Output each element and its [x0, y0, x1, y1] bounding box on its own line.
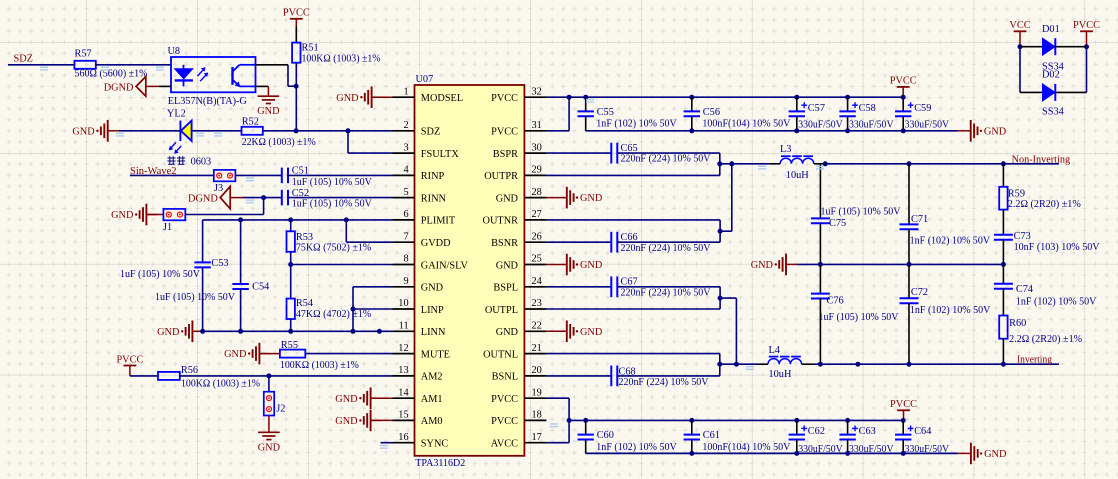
wire GND to AM0	[371, 419, 393, 421]
junction C64 bottom	[901, 451, 906, 456]
wire to J2	[268, 376, 270, 392]
power port GND (J1)	[140, 204, 147, 226]
svg-text:OUTNL: OUTNL	[483, 349, 518, 360]
svg-text:8: 8	[403, 254, 408, 265]
power port GND (YL2 row)	[101, 120, 108, 142]
svg-text:PVCC: PVCC	[890, 76, 917, 87]
wire GND to J1	[146, 214, 163, 216]
connector J3	[214, 170, 236, 181]
junction DGND/J1	[261, 195, 266, 200]
wire PVCC down	[1086, 47, 1088, 93]
junction C56 bottom	[689, 128, 694, 133]
svg-text:24: 24	[532, 276, 542, 287]
pin R59 top	[1002, 164, 1004, 187]
wire DGND stub	[146, 85, 159, 87]
wire pin31-32 tie	[568, 97, 570, 131]
svg-text:GND: GND	[157, 327, 180, 338]
wire C65 right	[617, 152, 720, 154]
pin C59 bottom	[902, 116, 904, 131]
junction C62 bottom	[794, 451, 799, 456]
svg-text:C74: C74	[1016, 284, 1033, 295]
svg-text:28: 28	[532, 187, 542, 198]
pin U8 cathode	[159, 85, 171, 87]
wire C51 to pin4	[288, 174, 393, 176]
wire SDZ to FSULTX	[347, 131, 349, 153]
svg-text:C72: C72	[911, 287, 928, 298]
svg-text:1uF (105) 10% 50V: 1uF (105) 10% 50V	[292, 177, 373, 188]
resistor R59	[999, 187, 1007, 210]
svg-text:GND: GND	[224, 349, 247, 360]
svg-text:BSNR: BSNR	[491, 238, 518, 249]
diode D01	[1043, 38, 1056, 55]
pin 28 GND	[524, 197, 546, 199]
svg-text:R53: R53	[296, 232, 313, 243]
wire Sin-Wave2 to J3	[130, 174, 214, 176]
junction R59 top	[1001, 161, 1006, 166]
svg-text:47KΩ (4702) ±1%: 47KΩ (4702) ±1%	[296, 309, 372, 320]
svg-text:C63: C63	[859, 426, 876, 437]
svg-text:BSNL: BSNL	[492, 372, 518, 383]
svg-text:C54: C54	[252, 282, 269, 293]
pin 4 RINP	[393, 174, 415, 176]
wire pin20 to C68	[546, 375, 611, 377]
diode D02	[1043, 84, 1056, 101]
pin R51 top	[295, 27, 297, 43]
pin C72 top	[908, 264, 910, 298]
power port GND (AM0)	[364, 410, 371, 432]
wire R53 to row8	[290, 252, 292, 265]
ground U8 emitter	[258, 96, 280, 103]
pin 11 LINN	[393, 330, 415, 332]
svg-text:C76: C76	[827, 296, 844, 307]
junction row2/FSULTX tie	[346, 128, 351, 133]
svg-text:23: 23	[532, 298, 542, 309]
wire pins19-17 tie	[568, 398, 570, 443]
capacitor C66	[611, 232, 617, 253]
svg-text:2.2Ω (2R20) ±1%: 2.2Ω (2R20) ±1%	[1009, 334, 1082, 345]
svg-text:R54: R54	[296, 298, 313, 309]
power port GND (top rail)	[971, 120, 978, 142]
pin C75 bottom	[819, 223, 821, 264]
svg-text:SDZ: SDZ	[421, 127, 440, 138]
svg-text:MODSEL: MODSEL	[421, 93, 463, 104]
svg-text:5: 5	[403, 187, 408, 198]
junction C71/GND	[907, 262, 912, 267]
svg-text:20: 20	[532, 365, 542, 376]
junction R60/L4 row	[1001, 362, 1006, 367]
pin C58 top	[847, 97, 849, 111]
wire GND to R55	[259, 353, 280, 355]
junction C58 bottom	[845, 128, 850, 133]
junction C76/L4 row	[818, 362, 823, 367]
wire U8 collector	[256, 64, 289, 66]
power port DGND (U8)	[136, 77, 146, 97]
wire GND to YL2	[119, 130, 180, 132]
svg-text:GND: GND	[258, 442, 281, 453]
svg-text:1uF (105) 10% 50V: 1uF (105) 10% 50V	[821, 207, 902, 218]
pin C72 bottom	[908, 303, 910, 364]
wire GND tie vertical	[352, 287, 354, 332]
svg-text:100KΩ (1003) ±1%: 100KΩ (1003) ±1%	[280, 360, 359, 371]
resistor R51	[292, 43, 300, 63]
svg-text:22: 22	[532, 321, 542, 332]
svg-text:L3: L3	[780, 144, 791, 155]
svg-text:SDZ: SDZ	[14, 54, 33, 65]
pin 17 AVCC	[524, 442, 546, 444]
svg-text:Non-Inverting: Non-Inverting	[1012, 155, 1071, 166]
svg-text:6: 6	[403, 209, 408, 220]
wire pin to GND (OUTPR GND)	[546, 197, 566, 199]
junction C60 top	[583, 418, 588, 423]
pin C62 top	[796, 420, 798, 434]
svg-text:C60: C60	[597, 430, 614, 441]
power port GND (MODSEL)	[365, 86, 372, 108]
svg-text:12: 12	[398, 343, 408, 354]
svg-text:SYNC: SYNC	[421, 439, 449, 450]
capacitor C62	[789, 426, 808, 440]
svg-text:R51: R51	[302, 42, 319, 53]
wire pin31	[546, 130, 569, 132]
svg-text:220nF (224) 10% 50V: 220nF (224) 10% 50V	[619, 377, 710, 388]
junction LINP	[351, 307, 356, 312]
junction OUTPL tie-in	[734, 362, 739, 367]
wire C66 right	[617, 241, 720, 243]
wire pin to GND (OUTPL GND)	[546, 330, 566, 332]
capacitor C56	[684, 111, 700, 116]
wire GND rail top	[586, 130, 958, 132]
svg-text:C56: C56	[703, 107, 720, 118]
svg-text:PVCC: PVCC	[491, 394, 518, 405]
svg-text:GND: GND	[496, 193, 519, 204]
svg-text:330uF/50V: 330uF/50V	[849, 120, 894, 131]
wire C54 to GND row	[240, 289, 242, 331]
svg-text:100nF(104) 10% 50V: 100nF(104) 10% 50V	[702, 442, 791, 453]
svg-text:15: 15	[398, 410, 408, 421]
svg-text:OUTPR: OUTPR	[484, 171, 518, 182]
wire to pin3	[348, 152, 393, 154]
pin C56 top	[691, 97, 693, 111]
svg-text:PVCC: PVCC	[283, 8, 310, 19]
power port GND (bottom rail)	[971, 443, 978, 465]
svg-text:1uF (105) 10% 50V: 1uF (105) 10% 50V	[292, 199, 373, 210]
pin C61 top	[691, 420, 693, 434]
svg-text:C59: C59	[914, 103, 931, 114]
svg-text:1nF (102) 10% 50V: 1nF (102) 10% 50V	[910, 236, 991, 247]
pin 12 MUTE	[393, 353, 415, 355]
svg-text:17: 17	[532, 432, 542, 443]
svg-text:Inverting: Inverting	[1017, 355, 1052, 366]
capacitor C75	[811, 218, 830, 223]
svg-text:25: 25	[532, 254, 542, 265]
svg-text:10nF (103) 10% 50V: 10nF (103) 10% 50V	[1014, 242, 1101, 253]
svg-text:J2: J2	[276, 403, 285, 414]
pin L4 right	[802, 363, 814, 365]
svg-text:MUTE: MUTE	[421, 349, 450, 360]
svg-text:GND: GND	[580, 260, 603, 271]
pin 27 OUTNR	[524, 219, 546, 221]
wire GND row11	[204, 330, 393, 332]
svg-text:SS34: SS34	[1042, 107, 1064, 118]
junction L4 tap	[717, 362, 722, 367]
junction C63 top	[845, 418, 850, 423]
wire to D02	[1020, 91, 1043, 93]
pin 9 GND	[393, 286, 415, 288]
pin 32 PVCC	[524, 96, 546, 98]
svg-text:AM2: AM2	[421, 372, 443, 383]
capacitor C60	[578, 435, 594, 440]
svg-text:C75: C75	[829, 218, 846, 229]
svg-text:0603: 0603	[191, 157, 212, 168]
svg-text:OUTPL: OUTPL	[485, 305, 518, 316]
wire C68 right	[617, 375, 720, 377]
wire D01 to PVCC	[1055, 46, 1086, 48]
junction C73/GND	[1001, 262, 1006, 267]
pin 7 GVDD	[393, 241, 415, 243]
wire pin24 to C67	[546, 286, 611, 288]
power port GND (AM1)	[364, 387, 371, 409]
pin C55 bottom	[585, 116, 587, 131]
svg-text:31: 31	[532, 120, 542, 131]
wire pin30 to C65	[546, 152, 611, 154]
svg-text:LINN: LINN	[421, 327, 446, 338]
svg-text:PVCC: PVCC	[890, 399, 917, 410]
wire J2 to GND	[268, 416, 270, 433]
pin C64 bottom	[902, 440, 904, 454]
svg-text:RINN: RINN	[421, 193, 447, 204]
svg-text:DGND: DGND	[188, 194, 218, 205]
pin C61 bottom	[691, 440, 693, 454]
wire pin27	[546, 219, 720, 221]
svg-text:11: 11	[399, 321, 409, 332]
wire pin17	[546, 442, 569, 444]
svg-text:560Ω (5600) ±1%: 560Ω (5600) ±1%	[75, 68, 148, 79]
svg-text:GND: GND	[335, 394, 358, 405]
pin L3 right	[814, 163, 825, 165]
wire to GND	[958, 130, 971, 132]
capacitor C58	[839, 102, 858, 116]
connector J1	[163, 209, 185, 220]
wire C52 to pin5	[288, 197, 393, 199]
capacitor C61	[684, 435, 700, 440]
junction C72/L4 row	[907, 362, 912, 367]
wire NR tap stub	[720, 230, 732, 232]
wire down to C53	[202, 220, 204, 263]
pin 22 GND	[524, 330, 546, 332]
svg-text:1: 1	[403, 86, 408, 97]
capacitor C72	[900, 298, 919, 303]
capacitor C76	[811, 294, 830, 299]
junction C56 top	[689, 95, 694, 100]
junction tie bottom	[351, 329, 356, 334]
svg-text:LINP: LINP	[421, 305, 444, 316]
pin 23 OUTPL	[524, 308, 546, 310]
wire R59 to C73	[1002, 210, 1004, 235]
junction tie top	[567, 95, 572, 100]
pin C71 bottom	[908, 229, 910, 264]
capacitor C65	[611, 143, 617, 164]
junction NR tap	[718, 229, 723, 234]
wire pin26 to C66	[546, 241, 611, 243]
power port PVCC top-left	[290, 18, 303, 20]
wire to L3	[720, 163, 770, 165]
svg-text:VCC: VCC	[1009, 20, 1030, 31]
wire GND to pin1	[372, 96, 393, 98]
wire R51 to SDZ-out node	[295, 63, 297, 131]
junction C61 top	[689, 418, 694, 423]
capacitor C57	[789, 102, 808, 116]
capacitor C55	[578, 111, 594, 116]
pin C60 top	[585, 420, 587, 434]
pin 18 PVCC	[524, 419, 546, 421]
wire NR to L3 node	[731, 164, 733, 231]
capacitor C73	[994, 235, 1013, 240]
wire PVCC bottom rail	[569, 419, 903, 421]
pin C71	[908, 164, 910, 225]
wire collector down	[287, 65, 289, 86]
junction C53 bottom	[200, 329, 205, 334]
svg-text:D02: D02	[1042, 70, 1060, 81]
pin 8 GAIN/SLV	[393, 264, 415, 266]
svg-text:RINP: RINP	[421, 171, 445, 182]
svg-text:GVDD: GVDD	[421, 238, 451, 249]
svg-text:GND: GND	[496, 327, 519, 338]
junction C54 bottom	[238, 329, 243, 334]
wire PL to L4 node	[735, 298, 737, 364]
svg-text:PLIMIT: PLIMIT	[421, 216, 456, 227]
junction row11 extra	[377, 329, 382, 334]
wire C74 to R60	[1002, 289, 1004, 316]
svg-text:9: 9	[403, 276, 408, 287]
pin C62 bottom	[796, 440, 798, 454]
svg-text:D01: D01	[1042, 24, 1060, 35]
svg-text:PVCC: PVCC	[491, 127, 518, 138]
svg-text:1nF (102) 10% 50V: 1nF (102) 10% 50V	[596, 442, 677, 453]
capacitor C63	[839, 426, 858, 440]
wire J3 to C51	[235, 174, 281, 176]
svg-text:10: 10	[398, 298, 408, 309]
junction J2	[266, 373, 271, 378]
pin C64 top	[902, 420, 904, 434]
wire down to C54	[240, 220, 242, 284]
capacitor C54	[232, 284, 248, 289]
pin C63 top	[847, 420, 849, 434]
pin 31 PVCC	[524, 130, 546, 132]
svg-text:R60: R60	[1009, 318, 1026, 329]
svg-text:75KΩ (7502) ±1%: 75KΩ (7502) ±1%	[296, 242, 372, 253]
svg-text:100KΩ (1003) ±1%: 100KΩ (1003) ±1%	[302, 54, 381, 65]
svg-text:GND: GND	[580, 193, 603, 204]
power port GND (OUTPR GND)	[567, 187, 574, 209]
pin C55 top	[585, 97, 587, 111]
resistor R55	[280, 350, 305, 358]
power port GND (OUTNR GND)	[567, 254, 574, 276]
power port PVCC (AM2)	[124, 365, 137, 367]
wire pin10 LINP	[353, 308, 393, 310]
wire mid GND rail	[797, 263, 1003, 265]
junction R51/row2	[294, 128, 299, 133]
resistor R60	[999, 316, 1007, 339]
svg-text:BSPL: BSPL	[493, 283, 518, 294]
junction VCC	[1018, 44, 1023, 49]
connector J2	[264, 392, 274, 416]
svg-text:C53: C53	[211, 258, 228, 269]
wire SDZ to R57	[8, 64, 74, 66]
resistor R56	[158, 372, 180, 380]
wire R55 to pin12	[305, 353, 392, 355]
pin C63 bottom	[847, 440, 849, 454]
svg-text:R55: R55	[281, 340, 298, 351]
pin 3 FSULTX	[393, 152, 415, 154]
svg-text:GND: GND	[984, 449, 1007, 460]
power port PVCC (top rail)	[897, 86, 910, 88]
svg-text:GND: GND	[580, 327, 603, 338]
pin 26 BSNR	[524, 241, 546, 243]
svg-text:220nF (224) 10% 50V: 220nF (224) 10% 50V	[621, 243, 712, 254]
svg-text:PVCC: PVCC	[1073, 20, 1100, 31]
svg-text:J3: J3	[214, 183, 223, 194]
wire to L4	[720, 363, 757, 365]
svg-text:GND: GND	[496, 260, 519, 271]
ground J2	[258, 432, 280, 439]
wire J1 right	[185, 214, 263, 216]
pin R60 bottom	[1002, 339, 1004, 365]
svg-text:PVCC: PVCC	[491, 416, 518, 427]
wire C67 right	[617, 286, 720, 288]
wire bridge PR	[719, 153, 721, 175]
pin L4 left	[757, 363, 768, 365]
svg-text:R56: R56	[181, 365, 198, 376]
svg-text:C64: C64	[914, 426, 931, 437]
pin 25 GND	[524, 264, 546, 266]
pin C60 bottom	[585, 440, 587, 454]
svg-text:1nF (102) 10% 50V: 1nF (102) 10% 50V	[1016, 296, 1097, 307]
junction C59 bottom	[901, 128, 906, 133]
wire to R54	[290, 265, 292, 299]
svg-text:C58: C58	[859, 103, 876, 114]
power port GND (OUTPL GND)	[567, 321, 574, 343]
pin C76 top	[819, 264, 821, 293]
compile marks	[40, 67, 824, 448]
capacitor C59	[895, 102, 914, 116]
pin 2 SDZ	[393, 130, 415, 132]
junction C59 top	[901, 95, 906, 100]
resistor R53	[287, 231, 295, 252]
wire D02 to PVCC	[1055, 91, 1086, 93]
svg-text:GND: GND	[421, 283, 444, 294]
junction C64 top	[901, 418, 906, 423]
svg-text:AM1: AM1	[421, 394, 443, 405]
svg-text:R52: R52	[242, 117, 259, 128]
pin L3 left	[770, 163, 780, 165]
wire PLIMIT-GVDD tie	[345, 220, 347, 242]
svg-text:GND: GND	[111, 210, 134, 221]
junction C57 bottom	[794, 128, 799, 133]
wire to pin7	[346, 241, 392, 243]
pin C58 bottom	[847, 116, 849, 131]
pin 5 RINN	[393, 197, 415, 199]
svg-text:TPA3116D2: TPA3116D2	[415, 458, 465, 469]
svg-text:GND: GND	[336, 93, 359, 104]
pin 24 BSPL	[524, 286, 546, 288]
junction L4 row extra	[855, 362, 860, 367]
junction C75 top	[823, 161, 828, 166]
pin C59 top	[902, 97, 904, 111]
pin 15 AM0	[393, 419, 415, 421]
capacitor C52	[282, 190, 288, 206]
wire R52 to pin2	[263, 130, 393, 132]
junction C55 top	[583, 95, 588, 100]
svg-text:14: 14	[398, 387, 408, 398]
